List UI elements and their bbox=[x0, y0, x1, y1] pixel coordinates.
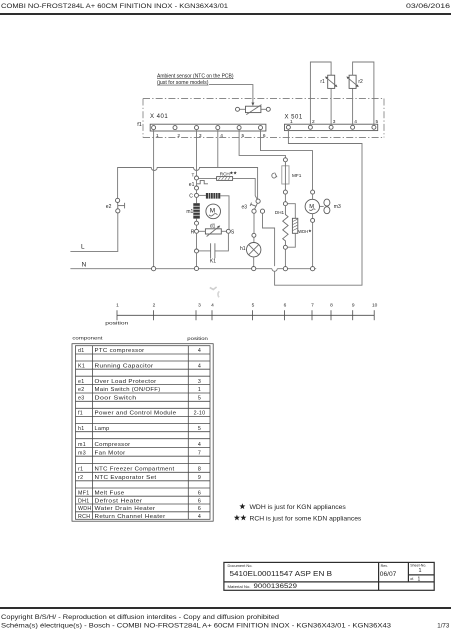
svg-text:Document No.: Document No. bbox=[228, 564, 253, 568]
svg-text:1: 1 bbox=[418, 576, 421, 582]
svg-text:e3: e3 bbox=[242, 204, 248, 210]
svg-text:5: 5 bbox=[198, 426, 201, 432]
svg-text:component: component bbox=[72, 336, 103, 341]
svg-text:T: T bbox=[192, 173, 195, 178]
svg-text:8: 8 bbox=[198, 466, 201, 472]
svg-text:Schéma(s) électrique(s) - Bosc: Schéma(s) électrique(s) - Bosch - COMBI … bbox=[1, 623, 391, 630]
svg-text:5: 5 bbox=[198, 396, 201, 402]
svg-text:m3: m3 bbox=[78, 450, 86, 456]
svg-text:e3: e3 bbox=[78, 396, 85, 402]
svg-text:Power and Control Module: Power and Control Module bbox=[95, 411, 177, 417]
svg-text:Fan Motor: Fan Motor bbox=[95, 450, 126, 456]
svg-text:r1: r1 bbox=[78, 466, 83, 472]
svg-text:RCH: RCH bbox=[220, 172, 230, 177]
svg-text:MF1: MF1 bbox=[78, 490, 90, 496]
svg-text:3: 3 bbox=[333, 119, 336, 125]
svg-text:R: R bbox=[191, 229, 195, 235]
svg-text:Material No.: Material No. bbox=[228, 585, 251, 589]
svg-text:5410EL00011547 ASP EN B: 5410EL00011547 ASP EN B bbox=[230, 569, 333, 578]
svg-text:4: 4 bbox=[211, 302, 214, 308]
svg-text:9000136529: 9000136529 bbox=[254, 584, 298, 590]
svg-text:3: 3 bbox=[199, 133, 202, 139]
svg-text:RCH: RCH bbox=[78, 514, 90, 520]
svg-text:Water Drain Heater: Water Drain Heater bbox=[95, 506, 156, 512]
svg-text:4: 4 bbox=[198, 442, 201, 448]
svg-text:NTC Evaporator Set: NTC Evaporator Set bbox=[95, 475, 157, 481]
svg-text:PTC compressor: PTC compressor bbox=[95, 348, 145, 354]
svg-text:COMBI NO-FROST284L A+ 60CM FIN: COMBI NO-FROST284L A+ 60CM FINITION INOX… bbox=[1, 3, 228, 10]
svg-text:f1: f1 bbox=[137, 122, 142, 128]
svg-text:10: 10 bbox=[372, 302, 378, 308]
svg-text:h1: h1 bbox=[240, 246, 246, 252]
svg-text:m1: m1 bbox=[78, 442, 86, 448]
svg-text:1: 1 bbox=[290, 119, 293, 125]
svg-text:X 501: X 501 bbox=[285, 114, 303, 120]
svg-text:5: 5 bbox=[376, 119, 379, 125]
svg-text:7: 7 bbox=[198, 450, 201, 456]
svg-text:4: 4 bbox=[198, 514, 201, 520]
svg-text:h1: h1 bbox=[78, 426, 85, 432]
svg-text:C: C bbox=[189, 194, 193, 200]
svg-text:4: 4 bbox=[354, 119, 357, 125]
svg-text:position: position bbox=[187, 336, 208, 341]
svg-text:3: 3 bbox=[198, 302, 201, 308]
svg-text:2: 2 bbox=[177, 133, 180, 139]
svg-text:8: 8 bbox=[330, 302, 333, 308]
svg-text:9: 9 bbox=[198, 475, 201, 481]
svg-text:K1: K1 bbox=[210, 258, 216, 264]
svg-text:Lamp: Lamp bbox=[95, 426, 110, 432]
svg-text:Melt Fuse: Melt Fuse bbox=[95, 490, 125, 496]
svg-text:WDH: WDH bbox=[78, 506, 92, 512]
svg-text:m3: m3 bbox=[334, 204, 341, 210]
svg-text:e1: e1 bbox=[189, 182, 195, 188]
svg-text:1: 1 bbox=[116, 302, 119, 308]
svg-text:6: 6 bbox=[198, 506, 201, 512]
svg-text:Compressor: Compressor bbox=[95, 442, 131, 448]
svg-text:WDH is just for KGN appliances: WDH is just for KGN appliances bbox=[250, 505, 346, 511]
svg-text:DH1: DH1 bbox=[78, 498, 90, 504]
svg-text:Door Switch: Door Switch bbox=[95, 396, 137, 402]
svg-text:5: 5 bbox=[242, 133, 245, 139]
svg-text:3: 3 bbox=[198, 379, 201, 385]
svg-text:position: position bbox=[105, 320, 129, 325]
svg-text:4: 4 bbox=[198, 363, 201, 369]
svg-text:2-10: 2-10 bbox=[194, 411, 206, 417]
svg-text:Ambient sensor (NTC on the PCB: Ambient sensor (NTC on the PCB) bbox=[157, 73, 234, 79]
svg-text:d1: d1 bbox=[78, 348, 85, 354]
svg-text:2: 2 bbox=[312, 119, 315, 125]
svg-text:N: N bbox=[82, 262, 87, 269]
svg-text:4: 4 bbox=[198, 348, 201, 354]
svg-text:6: 6 bbox=[284, 302, 287, 308]
svg-text:m1: m1 bbox=[186, 209, 193, 215]
svg-text:f1: f1 bbox=[78, 411, 83, 417]
svg-text:Rev.: Rev. bbox=[381, 564, 388, 568]
svg-text:Return Channel Heater: Return Channel Heater bbox=[95, 514, 166, 520]
svg-text:1: 1 bbox=[156, 133, 159, 139]
svg-text:06/07: 06/07 bbox=[380, 571, 397, 578]
svg-text:MF1: MF1 bbox=[292, 173, 302, 178]
svg-text:6: 6 bbox=[198, 490, 201, 496]
svg-text:7: 7 bbox=[311, 302, 314, 308]
svg-text:9: 9 bbox=[352, 302, 355, 308]
svg-text:Over Load Protector: Over Load Protector bbox=[95, 379, 157, 385]
svg-text:2: 2 bbox=[153, 302, 156, 308]
svg-text:5: 5 bbox=[252, 302, 255, 308]
svg-text:Sheet-No.: Sheet-No. bbox=[410, 564, 426, 568]
svg-text:Main Switch (ON/OFF): Main Switch (ON/OFF) bbox=[95, 387, 161, 393]
svg-text:RCH is just for some KDN appli: RCH is just for some KDN appliances bbox=[250, 517, 362, 523]
svg-text:Copyright B/S/H/ - Reproductio: Copyright B/S/H/ - Reproduction et diffu… bbox=[1, 614, 279, 621]
svg-text:1: 1 bbox=[198, 387, 201, 393]
svg-text:K1: K1 bbox=[78, 363, 85, 369]
svg-text:03/06/2016: 03/06/2016 bbox=[406, 3, 450, 10]
svg-text:(just for some models): (just for some models) bbox=[157, 80, 209, 86]
svg-text:DH1: DH1 bbox=[275, 210, 285, 215]
svg-text:r1: r1 bbox=[320, 79, 325, 85]
svg-text:of.: of. bbox=[410, 577, 414, 581]
svg-text:e2: e2 bbox=[78, 387, 85, 393]
svg-text:6: 6 bbox=[198, 498, 201, 504]
svg-text:r2: r2 bbox=[358, 79, 363, 85]
svg-text:e2: e2 bbox=[106, 204, 112, 210]
svg-text:1: 1 bbox=[419, 568, 422, 574]
svg-text:r2: r2 bbox=[78, 475, 83, 481]
svg-text:Running Capacitor: Running Capacitor bbox=[95, 363, 154, 369]
svg-text:4: 4 bbox=[220, 133, 223, 139]
svg-text:e1: e1 bbox=[78, 379, 85, 385]
svg-text:6: 6 bbox=[263, 133, 266, 139]
svg-text:Defrost Heater: Defrost Heater bbox=[95, 498, 143, 504]
svg-text:WDH: WDH bbox=[298, 229, 308, 234]
svg-text:1/73: 1/73 bbox=[437, 623, 449, 630]
svg-text:X 401: X 401 bbox=[150, 114, 168, 120]
svg-text:NTC Freezer Compartment: NTC Freezer Compartment bbox=[95, 466, 175, 472]
svg-text:L: L bbox=[81, 244, 85, 251]
